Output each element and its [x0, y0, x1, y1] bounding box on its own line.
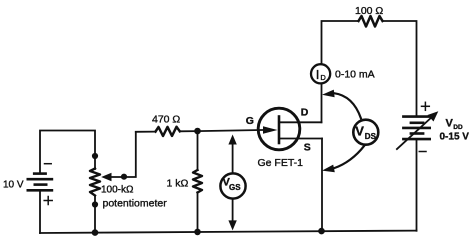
- svg-text:100-kΩ: 100-kΩ: [101, 185, 134, 196]
- svg-text:Ge FET-1: Ge FET-1: [258, 157, 304, 169]
- battery VDD 0-15 V: [403, 117, 429, 140]
- label: potentiometer: [103, 198, 168, 210]
- wire: drain vertical to ammeter: [321, 85, 323, 122]
- svg-text:potentiometer: potentiometer: [103, 198, 168, 210]
- label: 470 Ω: [152, 114, 180, 126]
- label: 0-15 V: [440, 132, 470, 143]
- label: G (gate pin): [246, 115, 254, 127]
- label: 100 Ω: [355, 5, 383, 17]
- arrow: VDD variable (diagonal): [397, 111, 438, 149]
- potentiometer R1 100-kΩ (element): [90, 169, 100, 233]
- resistor R3 1 kΩ: [193, 170, 202, 232]
- voltmeter VGS: [220, 135, 245, 231]
- wire: battery bottom to bottom rail: [39, 190, 41, 233]
- label: battery minus: [45, 163, 52, 165]
- svg-text:0-15 V: 0-15 V: [440, 132, 470, 143]
- svg-text:D: D: [301, 106, 309, 118]
- svg-text:S: S: [304, 141, 311, 153]
- resistor R4 100 Ω: [359, 16, 383, 27]
- svg-text:GS: GS: [229, 183, 241, 192]
- svg-text:1 kΩ: 1 kΩ: [167, 178, 189, 190]
- ammeter ID: [311, 64, 330, 83]
- label: VDS: [355, 124, 376, 141]
- wire: left loop top (battery top to potentiometer top): [40, 131, 95, 174]
- resistor R2 470 Ω: [156, 127, 180, 136]
- label: 1 kΩ: [167, 178, 189, 190]
- label: battery plus: [44, 197, 52, 205]
- label: VDD: [446, 118, 463, 132]
- wire: VDS lower probe arc with arrowhead: [322, 146, 364, 172]
- label: Ge FET-1: [258, 157, 304, 169]
- wire: VDS upper probe arc with arrowhead: [322, 90, 361, 119]
- label: S (source pin): [304, 141, 311, 153]
- junction dot: potentiometer bottom terminal: [92, 201, 98, 207]
- svg-text:I: I: [316, 67, 320, 82]
- transistor Q1 Ge FET-1: [258, 108, 322, 150]
- junction dot: wiper arm: [121, 174, 127, 180]
- svg-text:0-10 mA: 0-10 mA: [335, 69, 375, 81]
- label: VGS: [223, 177, 242, 192]
- junction dot: potentiometer top terminal: [92, 153, 98, 159]
- wire: source vertical to bottom rail: [321, 139, 323, 232]
- label: 100-kΩ: [101, 185, 134, 196]
- svg-text:V: V: [446, 118, 454, 130]
- label: 0-10 mA: [335, 69, 375, 81]
- junction dot: pot bottom rail: [92, 229, 99, 236]
- svg-text:G: G: [246, 115, 254, 127]
- junction dot: gate node: [194, 128, 201, 135]
- wire: gate wire left segment: [136, 131, 156, 133]
- svg-text:DD: DD: [453, 124, 463, 131]
- wire: VDD battery bottom to bottom rail: [416, 139, 418, 231]
- wire: bottom rail: [40, 231, 417, 233]
- wire: potentiometer wiper arm with arrowhead: [101, 132, 136, 181]
- voltmeter VDS: [353, 120, 378, 145]
- battery B1 10 V (left): [28, 174, 52, 191]
- wire: 100Ω to VDD battery top: [383, 21, 417, 117]
- junction dot: source bottom rail: [318, 228, 325, 235]
- svg-text:470 Ω: 470 Ω: [152, 114, 180, 126]
- svg-text:100 Ω: 100 Ω: [355, 5, 383, 17]
- label: 10 V: [3, 179, 24, 190]
- label: D (drain pin): [301, 106, 309, 118]
- wire: 1 kΩ branch top: [197, 131, 199, 170]
- svg-text:DS: DS: [365, 132, 377, 141]
- wire: ammeter top to 100Ω loop: [322, 21, 359, 63]
- label: VDD plus: [422, 102, 430, 110]
- svg-text:10 V: 10 V: [3, 179, 24, 190]
- svg-text:D: D: [320, 73, 326, 82]
- wire: gate wire right segment to FET: [180, 130, 270, 131]
- svg-text:V: V: [355, 124, 364, 139]
- junction dot: 1 kΩ bottom rail: [194, 229, 201, 236]
- label: ID: [316, 67, 327, 82]
- label: VDD minus: [419, 151, 426, 153]
